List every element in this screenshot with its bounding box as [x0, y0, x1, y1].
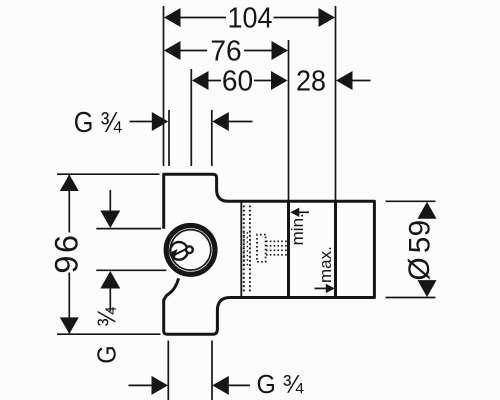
extension line V8 x=212 (bottom port right)	[211, 341, 213, 400]
arrowhead 28 right (outside, pointing left)	[336, 71, 353, 90]
svg-text:59: 59	[403, 220, 436, 253]
extension line V6 x=335.5 (104/28 right)	[335, 6, 337, 200]
svg-text:28: 28	[296, 65, 326, 97]
cartridge inner circle	[170, 230, 210, 270]
stop small circle	[170, 242, 188, 260]
thick divider x=335.5	[334, 201, 337, 297]
extension line V3 x=191.3 (60 left)	[190, 69, 192, 166]
svg-text:G: G	[94, 345, 122, 363]
extension line V5 x=288.5 (76/60 right, 28 left)	[288, 40, 290, 200]
arrowhead dia59 bottom (down)	[418, 280, 437, 297]
dia59 bottom extension line	[386, 297, 436, 299]
arrowhead 60 right	[271, 71, 288, 90]
dia59 top extension line	[386, 200, 436, 202]
arrowhead 96 top (up)	[60, 175, 79, 192]
G3/4 top opposing tail	[228, 121, 253, 123]
min arrow tail	[298, 211, 309, 213]
svg-text:G ¾: G ¾	[257, 371, 305, 399]
arrowhead side port top (down)	[100, 211, 120, 229]
arrowhead G3/4 top opposing (pointing left)	[212, 112, 229, 131]
arrowhead bottom port right (pointing left)	[212, 376, 229, 395]
svg-text:104: 104	[228, 2, 273, 34]
arrowhead 76 left	[164, 41, 181, 60]
dotted hatch rows mid strip	[243, 233, 250, 265]
arrowhead bottom port left (pointing right)	[152, 376, 169, 395]
extension line V7 x=168.3 (bottom port left)	[167, 341, 169, 400]
thick divider x=288.5	[287, 201, 290, 297]
bottom G3/4 opposing tail	[229, 384, 251, 386]
side port top edge line y=228.6	[96, 228, 161, 230]
svg-text:min.: min.	[288, 213, 307, 245]
side port dim shaft top x=110.3	[109, 190, 111, 212]
lever wedge	[171, 249, 177, 258]
arrowhead G3/4 top leader (pointing right)	[152, 112, 169, 131]
extension line V2 x=169 (top port left)	[168, 110, 170, 166]
arrowhead 104 right	[319, 8, 336, 27]
arrowhead 96 bottom (down)	[60, 317, 79, 334]
extension line V1 x=163.5 (left of 104/76)	[163, 6, 165, 166]
96 top extension line y=174	[57, 173, 160, 175]
svg-text:76: 76	[210, 35, 241, 67]
svg-text:96: 96	[48, 232, 84, 273]
max arrow tail	[315, 287, 328, 289]
dim 28 outside tail right y=80.5	[352, 80, 371, 82]
svg-text:¾: ¾	[94, 307, 122, 327]
arrowhead 104 left	[164, 8, 181, 27]
G3/4 top leader tail	[130, 121, 153, 123]
cartridge outer ring	[166, 226, 215, 275]
nub circle	[186, 246, 193, 253]
dotted spindle rows	[266, 241, 287, 255]
96 bottom extension line y=333.8	[57, 333, 161, 335]
dim 60 line segments y=80.5	[206, 80, 221, 82]
dotted thread strip left edge	[243, 206, 245, 294]
svg-text:60: 60	[222, 65, 253, 97]
valve body outline	[164, 174, 375, 334]
dim 76 line segments y=50.5	[178, 50, 207, 52]
arrowhead min (small, pointing left)	[290, 208, 299, 217]
arrowhead 76 right	[272, 41, 289, 60]
dim 96 line segments x=69.3	[68, 175, 70, 233]
arrowhead 60 left	[192, 71, 209, 90]
dotted thread strip right edge	[249, 206, 251, 294]
svg-text:G ¾: G ¾	[74, 106, 122, 139]
side port dim shaft bottom	[109, 288, 111, 312]
arrowhead side port bottom (up)	[100, 271, 120, 289]
arrowhead dia59 top (up)	[418, 202, 437, 219]
extension line V4 x=211.8 (top port right)	[211, 110, 213, 166]
arrowhead max (small, pointing right)	[326, 284, 335, 293]
svg-text:max.: max.	[316, 246, 335, 283]
dim 104 line segments y=17.5	[178, 17, 226, 19]
bottom G3/4 leader tail left	[129, 384, 153, 386]
thin divider x=240	[240, 201, 242, 297]
lever line	[174, 249, 187, 255]
dotted spindle cup	[257, 235, 266, 262]
side port bottom edge line y=270.3	[96, 269, 166, 271]
svg-text:Ø: Ø	[403, 257, 436, 280]
